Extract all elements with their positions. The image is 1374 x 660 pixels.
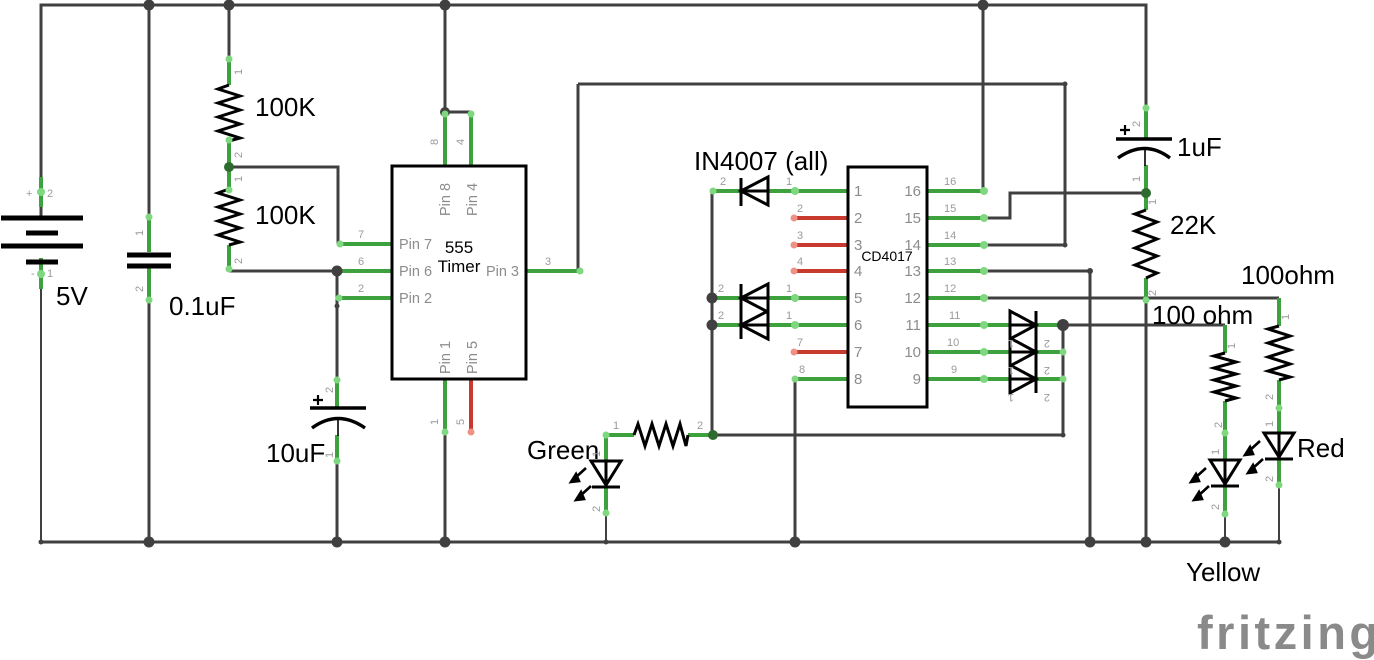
wire pin13 to ground [984, 271, 1090, 542]
junction node top rail at pin16 [978, 0, 989, 11]
svg-text:4: 4 [455, 139, 467, 145]
junction node top rail at 555 supply [440, 0, 451, 11]
diode D1 IN4007 [741, 177, 768, 206]
svg-text:1: 1 [854, 183, 862, 200]
svg-text:9: 9 [951, 364, 957, 376]
svg-text:2: 2 [718, 310, 724, 322]
wire diode D1 anode lead [713, 189, 741, 193]
wire CD4017 pin4 red stub [792, 269, 848, 273]
svg-text:13: 13 [904, 263, 921, 280]
wire diode D2 to CD4017 pin5 [767, 296, 848, 300]
svg-text:1uF: 1uF [1177, 132, 1222, 162]
wire 555 pin4 stub [469, 113, 473, 166]
svg-text:2: 2 [1147, 290, 1159, 296]
svg-text:2: 2 [233, 258, 245, 264]
wire 0.1uF pin1 stub [147, 215, 151, 252]
wire diode D2 anode lead [712, 296, 741, 300]
svg-text:2: 2 [720, 176, 726, 188]
resistor R1 100K [218, 85, 240, 141]
svg-text:1: 1 [1147, 199, 1159, 205]
svg-text:8: 8 [854, 371, 862, 388]
junction node ground at pin13 wire [1085, 537, 1096, 548]
node small red LED ground end [1277, 540, 1282, 545]
node small green LED ground [604, 540, 609, 545]
wire CD4017 pin16 supply drop [982, 5, 985, 191]
wire diode D3 to CD4017 pin6 [767, 323, 848, 327]
IC U2 CD4017 body [848, 167, 927, 407]
svg-text:100ohm: 100ohm [1241, 260, 1335, 290]
LED green emission arrows [571, 468, 591, 500]
wire red LED cathode stub [1277, 459, 1281, 487]
svg-text:2: 2 [358, 283, 364, 295]
svg-text:-: - [31, 268, 35, 280]
svg-text:2: 2 [1213, 422, 1225, 428]
wire green LED resistor pin1 lead [606, 433, 634, 437]
wire CD4017 pin3 red stub [792, 243, 848, 247]
svg-text:2: 2 [718, 283, 724, 295]
wire 555 pin1 stub [443, 379, 447, 434]
node small diode common bottom corner [1061, 433, 1066, 438]
wire yellow LED cathode stub [1223, 486, 1227, 516]
wire green LED cathode stub [604, 487, 608, 515]
diode D5 IN4007 [1010, 338, 1036, 366]
svg-text:1: 1 [613, 420, 619, 432]
node small pin13 corner [1087, 268, 1093, 274]
wire 555 pin8/4 supply drop [444, 5, 447, 112]
wire pin14 drop [1064, 84, 1067, 245]
diode D3 IN4007 [741, 311, 768, 339]
junction node ground at yellow LED [1220, 537, 1231, 548]
wire red LED cathode to ground [1278, 487, 1280, 542]
svg-text:12: 12 [944, 283, 956, 295]
svg-text:1: 1 [324, 452, 336, 458]
wire diode output common drop [1062, 325, 1065, 435]
svg-text:1: 1 [786, 176, 792, 188]
svg-text:3: 3 [797, 230, 803, 242]
resistor R5 yellow 100ohm [1214, 353, 1236, 401]
svg-text:Pin 5: Pin 5 [465, 341, 481, 374]
svg-text:5V: 5V [56, 281, 88, 311]
wire 0.1uF top drop [148, 5, 151, 215]
svg-text:1: 1 [1226, 343, 1238, 349]
resistor R2 100K [218, 189, 240, 245]
capacitor C1 0.1uF [127, 255, 171, 266]
svg-text:2: 2 [1264, 476, 1276, 482]
wire CD4017 pin12 stub [927, 296, 984, 300]
svg-text:2: 2 [1264, 394, 1276, 400]
junction node ground at 555 pin1 [440, 537, 451, 548]
wire yellow LED cathode to ground [1224, 516, 1226, 542]
svg-text:15: 15 [944, 203, 956, 215]
svg-text:5: 5 [854, 290, 862, 307]
svg-text:1: 1 [429, 419, 441, 425]
svg-text:1: 1 [786, 310, 792, 322]
svg-text:2: 2 [1044, 337, 1050, 349]
node small battery ground end [39, 540, 44, 545]
wire CD4017 pin13 stub [927, 269, 984, 273]
svg-text:9: 9 [913, 371, 921, 388]
wire red resistor pin2 to LED [1277, 380, 1281, 434]
svg-text:2: 2 [591, 506, 603, 512]
wire CD4017 pin14 stub [927, 243, 984, 247]
svg-text:1: 1 [1131, 176, 1143, 182]
svg-text:2: 2 [1044, 364, 1050, 376]
connector ends bright green [37, 56, 1283, 518]
wire 10uF pin1 stub [335, 435, 339, 463]
wire pin14 stub link [984, 244, 1065, 247]
wire 1uF pin1 stub [1144, 165, 1148, 193]
svg-text:3: 3 [854, 237, 862, 254]
connector ends light red [468, 215, 798, 436]
svg-text:5: 5 [455, 419, 467, 425]
wire 22K pin1 stub [1144, 193, 1148, 210]
svg-text:11: 11 [949, 310, 960, 322]
svg-text:Pin 7: Pin 7 [399, 237, 432, 253]
wire green LED cathode to ground [605, 515, 607, 542]
svg-text:6: 6 [854, 317, 862, 334]
svg-text:10: 10 [904, 344, 921, 361]
junction node top rail at R1 [224, 0, 235, 11]
junction node ground at CD4017 pin8 [790, 537, 801, 548]
svg-text:Pin 3: Pin 3 [486, 264, 519, 280]
svg-text:1: 1 [1210, 449, 1222, 455]
svg-text:1: 1 [1264, 421, 1276, 427]
svg-text:14: 14 [904, 237, 921, 254]
svg-text:IN4007 (all): IN4007 (all) [694, 146, 828, 176]
wire CD4017 pin8 stub [795, 377, 848, 381]
svg-text:Pin 1: Pin 1 [438, 341, 454, 374]
wire pin15 to 1uF bottom node [984, 193, 1146, 218]
wire pin3 top link to CD4017 pin14 [578, 83, 1065, 86]
wire red resistor pin1 stub [1277, 298, 1281, 326]
wire yellow resistor pin1 stub [1223, 325, 1227, 353]
svg-text:Pin 2: Pin 2 [399, 291, 432, 307]
wire yellow resistor pin2 to LED [1223, 401, 1227, 461]
svg-text:+: + [26, 188, 32, 200]
svg-text:1: 1 [233, 69, 245, 75]
svg-text:11: 11 [905, 317, 921, 334]
wire 555 pin2 stub [337, 296, 392, 300]
wire 555 pin8/pin4 black link [445, 111, 471, 114]
diode D2 IN4007 [741, 284, 768, 339]
svg-text:2: 2 [47, 188, 53, 200]
wire 10uF bottom to ground [336, 463, 339, 542]
wire 555 pin6 stub [337, 269, 392, 273]
svg-text:10uF: 10uF [266, 438, 325, 468]
wire R2 pin2 stub [227, 245, 231, 271]
svg-text:1: 1 [1008, 337, 1014, 349]
svg-text:10: 10 [947, 337, 959, 349]
svg-text:2: 2 [797, 203, 803, 215]
wire green LED resistor pin2 lead [688, 433, 713, 437]
junction node ground at 0.1uF [144, 537, 155, 548]
wire 555 pin3 riser [577, 84, 580, 271]
wire 22K bottom to ground [1145, 300, 1148, 542]
wire 555 pin1 to ground [444, 434, 447, 542]
diode D6 IN4007 [1010, 365, 1036, 393]
svg-text:2: 2 [134, 286, 146, 292]
svg-text:6: 6 [358, 256, 364, 268]
wire CD4017 pin7 red stub [792, 350, 848, 354]
svg-text:1: 1 [134, 230, 146, 236]
svg-text:Yellow: Yellow [1186, 557, 1260, 587]
wire CD4017 pin10 to diode D5 [927, 350, 1010, 354]
LED yellow [1210, 460, 1240, 486]
wire diode anode rail left of CD4017 [711, 191, 714, 435]
svg-text:2: 2 [1044, 391, 1050, 403]
wire CD4017 pin9 to diode D6 [927, 377, 1010, 381]
wire battery minus stub [39, 258, 43, 289]
node small pin14 end [1063, 243, 1068, 248]
junction node 555 pin8/4 [440, 107, 450, 117]
svg-text:1: 1 [1280, 314, 1292, 320]
wire battery minus to ground rail [40, 262, 42, 542]
junction node 555 pin6 [332, 266, 343, 277]
wire 10uF pin2 stub [335, 378, 339, 408]
wire CD4017 pin16 stub [927, 189, 984, 193]
wire bottom ground rail [41, 541, 1280, 544]
LED red emission arrows [1245, 441, 1263, 473]
junction node ground at 22K [1141, 537, 1152, 548]
wire diode D5 cathode lead [1036, 350, 1063, 354]
svg-text:Timer: Timer [438, 257, 481, 276]
wire R2 bottom to pin6 node [229, 270, 337, 273]
svg-text:12: 12 [904, 290, 921, 307]
wire R1/R2 junction to 555 pin7 [229, 167, 338, 244]
svg-text:7: 7 [797, 337, 803, 349]
svg-text:1: 1 [1008, 391, 1014, 403]
svg-text:Pin 6: Pin 6 [399, 264, 432, 280]
svg-text:Red: Red [1297, 433, 1345, 463]
wire 0.1uF bottom to ground [148, 302, 151, 542]
svg-text:4: 4 [797, 256, 803, 268]
svg-text:Pin 4: Pin 4 [465, 183, 481, 216]
wire 555 pin7 stub [338, 242, 392, 246]
wire green LED anode stub [604, 435, 608, 462]
junction node top rail at 0.1uF [144, 0, 155, 11]
wire CD4017 pin11 to diode D4 [927, 323, 1010, 327]
wire R2 pin1 stub [227, 167, 231, 189]
svg-text:7: 7 [358, 229, 364, 241]
svg-text:Pin 8: Pin 8 [438, 183, 454, 216]
wire CD4017 pin15 stub [927, 216, 984, 220]
svg-text:1: 1 [786, 283, 792, 295]
svg-text:22K: 22K [1170, 210, 1217, 240]
wire diode D6 cathode lead [1036, 377, 1063, 381]
svg-text:1: 1 [1008, 364, 1014, 376]
node small pin14 corner [1063, 82, 1068, 87]
svg-text:555: 555 [445, 238, 473, 257]
op-amp U1 555 Timer body [392, 166, 526, 379]
svg-text:1: 1 [47, 268, 53, 280]
svg-text:2: 2 [1131, 121, 1143, 127]
wire 555 pin8 stub [443, 112, 447, 166]
wire green resistor node to diode output drop [713, 434, 1063, 437]
svg-text:Green: Green [527, 435, 599, 465]
junction node ground at 10uF [332, 537, 343, 548]
svg-text:8: 8 [429, 139, 441, 145]
svg-text:100K: 100K [255, 92, 316, 122]
junction node green resistor output [708, 430, 718, 440]
svg-text:2: 2 [854, 210, 862, 227]
LED red [1264, 433, 1294, 459]
wire 555 pin3 stub [526, 269, 578, 273]
svg-text:100K: 100K [255, 200, 316, 230]
wire CD4017 pin8 to ground [794, 379, 797, 542]
LED yellow emission arrows [1191, 468, 1209, 500]
LED green [591, 461, 621, 487]
wire pin6 node down past pin2 to 10uF [336, 271, 339, 378]
wire 100K R1 top drop [228, 5, 231, 57]
svg-text:14: 14 [944, 230, 956, 242]
svg-text:4: 4 [854, 263, 862, 280]
svg-text:1: 1 [591, 451, 603, 457]
wire top power rail [41, 5, 1146, 218]
junction node R1/R2 [224, 162, 234, 172]
resistor R6 red 100ohm [1268, 326, 1290, 380]
junction node 1uF bottom 22K top [1141, 188, 1151, 198]
wire diode D3 anode lead [712, 323, 741, 327]
wire 555 pin5 red stub [469, 379, 473, 434]
wire battery plus stub [39, 177, 43, 207]
svg-text:0.1uF: 0.1uF [169, 291, 236, 321]
svg-text:fritzing: fritzing [1197, 606, 1374, 659]
resistor R3 22K [1135, 210, 1157, 278]
svg-text:2: 2 [1210, 504, 1222, 510]
svg-text:13: 13 [944, 256, 956, 268]
resistor R4 green LED 100ohm [634, 424, 688, 446]
svg-text:8: 8 [799, 364, 805, 376]
svg-text:15: 15 [904, 210, 921, 227]
svg-text:2: 2 [697, 420, 703, 432]
node small below pin2 stub [335, 304, 340, 309]
svg-text:3: 3 [545, 256, 551, 268]
wire diode D1 to CD4017 pin1 [767, 189, 848, 193]
wire 1uF pin2 stub [1144, 106, 1148, 139]
wire 0.1uF pin2 stub [147, 267, 151, 302]
wire 22K pin2 stub [1144, 278, 1148, 300]
svg-text:16: 16 [944, 176, 956, 188]
diode D4 IN4007 [1010, 311, 1036, 393]
svg-text:7: 7 [854, 344, 862, 361]
svg-text:2: 2 [324, 387, 336, 393]
wire pin12 to red 100ohm resistor [984, 297, 1279, 300]
wire CD4017 pin2 red stub [792, 216, 848, 220]
svg-text:1: 1 [233, 176, 245, 182]
svg-text:2: 2 [233, 152, 245, 158]
capacitor C3 1uF polarized [1116, 125, 1172, 166]
wire diode common to yellow resistor [1063, 324, 1225, 327]
battery BT1 5V [1, 218, 83, 262]
wire diode D4 cathode lead [1036, 323, 1063, 327]
junction node diode output common [1057, 319, 1069, 331]
wire R1 pin1 stub [227, 57, 231, 85]
wire R1 pin2 stub [227, 141, 231, 167]
svg-text:100 ohm: 100 ohm [1152, 300, 1253, 330]
capacitor C2 10uF polarized [310, 395, 366, 436]
junction node diode rail D2 [707, 293, 718, 304]
junction node diode rail D3 [707, 320, 718, 331]
svg-text:16: 16 [904, 183, 921, 200]
